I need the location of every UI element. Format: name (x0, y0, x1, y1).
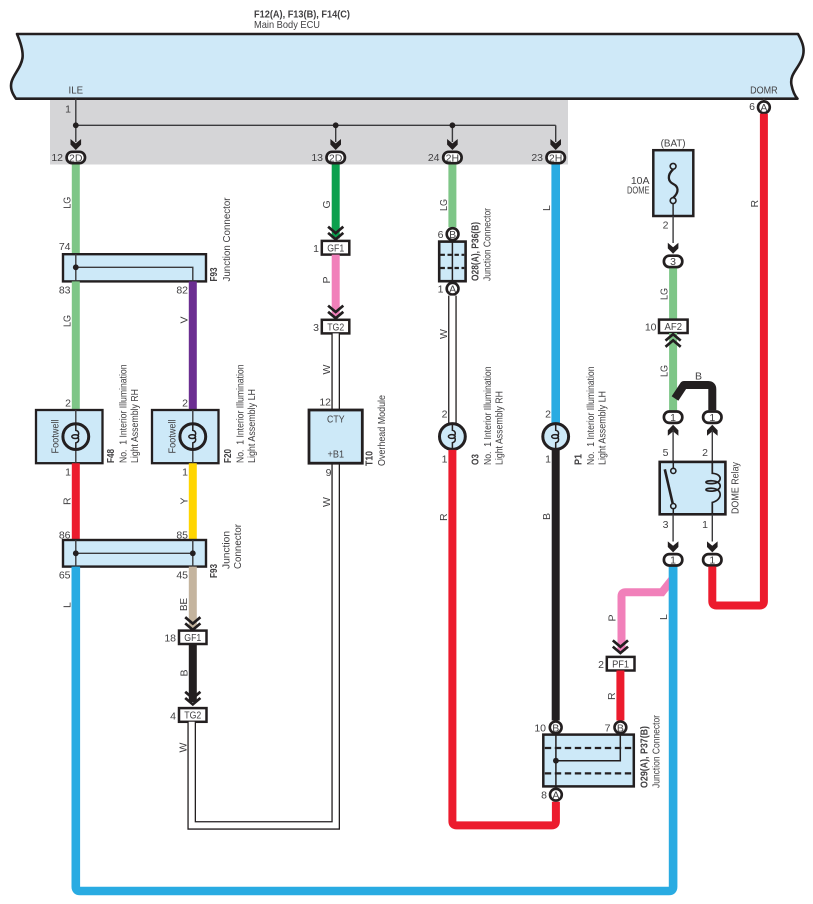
svg-text:2H: 2H (446, 152, 460, 164)
svg-text:65: 65 (59, 570, 71, 582)
svg-text:18: 18 (164, 633, 176, 645)
harness arrow into lower connector 1 (contact) (668, 541, 679, 552)
svg-text:No. 1 Interior Illumination: No. 1 Interior Illumination (118, 364, 130, 463)
svg-text:B: B (178, 669, 190, 676)
svg-text:2: 2 (65, 398, 71, 410)
svg-text:L: L (61, 602, 73, 608)
fuse pin 2 lead (663, 216, 673, 243)
svg-text:R: R (606, 692, 618, 700)
svg-text:W: W (321, 365, 333, 375)
svg-text:Light Assembly LH: Light Assembly LH (246, 389, 258, 463)
relay connector 1 (coil side, lower) (703, 554, 721, 567)
connector 12 2D (51, 152, 85, 165)
connector TG2 pin 4 (170, 708, 206, 722)
splice arrow up into AF2 (666, 334, 681, 347)
wire R F48 pin 1 to F93 pin 86 (59, 463, 76, 541)
svg-text:2H: 2H (549, 152, 563, 164)
svg-text:Junction Connector: Junction Connector (221, 197, 233, 281)
svg-text:Junction Connector: Junction Connector (482, 208, 494, 281)
wire W O28 pin 1 to O3 pin 2 (438, 296, 453, 424)
svg-text:2: 2 (598, 659, 604, 671)
wire G 13-2D to GF1 1 (321, 165, 336, 239)
svg-text:Y: Y (178, 497, 190, 504)
svg-text:B: B (552, 722, 559, 734)
svg-text:W: W (321, 497, 333, 507)
bus drop to 13-2D (335, 125, 337, 142)
svg-text:3: 3 (663, 519, 669, 531)
svg-text:Overhead Module: Overhead Module (376, 395, 388, 466)
svg-text:1: 1 (313, 243, 319, 255)
bus drop to 24-2H (451, 125, 453, 142)
connector GF1 pin 18 (164, 631, 206, 645)
svg-text:Junction: Junction (221, 531, 233, 569)
svg-text:P: P (607, 614, 619, 621)
svg-text:74: 74 (59, 241, 71, 253)
harness arrow into 13-2D (330, 139, 341, 150)
svg-text:L: L (541, 205, 553, 211)
svg-text:Footwell: Footwell (167, 420, 179, 454)
wire LG F93 pin 83 to F48 pin 2 (61, 281, 76, 410)
svg-text:2: 2 (442, 409, 448, 421)
svg-text:2D: 2D (329, 152, 343, 164)
svg-text:9: 9 (326, 467, 332, 479)
junction connector F93 (upper) (59, 197, 233, 296)
svg-text:24: 24 (428, 152, 440, 164)
svg-text:1: 1 (65, 467, 71, 479)
svg-text:2: 2 (663, 220, 669, 232)
svg-text:No. 1 Interior Illumination: No. 1 Interior Illumination (235, 364, 247, 463)
svg-text:1: 1 (709, 555, 715, 567)
svg-text:2: 2 (702, 447, 708, 459)
wire BE F93 pin 45 to GF1 18 (178, 567, 193, 628)
wire W TG2 4 down and right joining CTY pin 9 wire (177, 463, 335, 825)
svg-text:Light Assembly RH: Light Assembly RH (494, 391, 506, 465)
svg-text:12: 12 (319, 397, 331, 409)
svg-text:LG: LG (659, 365, 671, 377)
wire W TG2 3 to T10 pin 12 (319, 333, 335, 410)
svg-text:(BAT): (BAT) (661, 137, 686, 149)
wire P relay junction to PF1 2 (607, 578, 674, 651)
wire L overlay at relay junction (669, 567, 678, 640)
svg-text:A: A (760, 102, 767, 114)
ILE pin 1 stub (65, 99, 76, 126)
svg-text:A: A (552, 790, 559, 802)
bus drop to 12-2D (75, 125, 77, 142)
svg-text:TG2: TG2 (327, 321, 344, 333)
DOME Relay (660, 461, 742, 514)
junction connector O28(A), P36(B) (438, 208, 494, 296)
wire V F93 pin 82 to F20 pin 2 (178, 281, 193, 410)
grey harness shade band (50, 99, 568, 165)
harness distribution bus (76, 124, 556, 126)
footwell lamp F20 No. 1 Interior Illumination Light Assembly LH (152, 364, 258, 478)
svg-text:2: 2 (545, 409, 551, 421)
svg-text:No. 1 Interior Illumination: No. 1 Interior Illumination (482, 366, 494, 465)
svg-text:ILE: ILE (69, 85, 84, 97)
svg-text:23: 23 (531, 152, 543, 164)
svg-text:L: L (658, 614, 670, 620)
wire B P1 pin 1 to O29 pin 10 (541, 449, 556, 720)
svg-text:F48: F48 (105, 449, 117, 463)
svg-text:DOMR: DOMR (750, 85, 778, 97)
fuse 10A DOME (BAT) (627, 137, 693, 216)
svg-text:6: 6 (749, 101, 755, 113)
svg-text:G: G (321, 200, 333, 208)
svg-text:2D: 2D (69, 152, 83, 164)
svg-text:7: 7 (605, 722, 611, 734)
wire B branch to relay connector 1 (coil) (675, 371, 712, 411)
svg-text:1: 1 (65, 104, 71, 116)
wire R O3 pin 1 down, right, up to O29 pin 8 (438, 450, 556, 826)
svg-text:8: 8 (541, 790, 547, 802)
overhead module T10 CTY/+B1 (309, 395, 388, 479)
svg-text:AF2: AF2 (665, 321, 683, 333)
svg-text:1: 1 (670, 412, 676, 424)
connector 23 2H (531, 152, 565, 165)
relay connector 1 (coil side, upper) (703, 412, 721, 425)
splice arrow into GF1 18 (185, 617, 200, 630)
splice arrow into TG2 3 (328, 306, 343, 319)
svg-text:1: 1 (545, 454, 551, 466)
harness arrow up into connector 1 (contact) (668, 425, 679, 436)
svg-text:1: 1 (442, 454, 448, 466)
svg-text:DOME Relay: DOME Relay (730, 461, 742, 514)
svg-text:R: R (438, 513, 450, 521)
wire R DOMR to relay coil connector 1 (712, 114, 764, 606)
wire LG 24-2H to O28 pin 6 (438, 165, 453, 228)
svg-text:Light Assembly LH: Light Assembly LH (597, 391, 609, 465)
wire LG AF2 to relay connector 1 (659, 333, 674, 410)
svg-text:Footwell: Footwell (50, 420, 62, 454)
svg-text:4: 4 (170, 711, 176, 723)
svg-text:GF1: GF1 (327, 243, 344, 255)
svg-text:A: A (449, 284, 456, 296)
wire P GF1 1 to TG2 3 (321, 255, 336, 317)
svg-text:1: 1 (438, 284, 444, 296)
svg-text:5: 5 (663, 447, 669, 459)
svg-text:B: B (541, 513, 553, 520)
svg-text:W: W (177, 743, 189, 753)
wire R PF1 2 to O29 pin 7 (606, 671, 621, 721)
svg-text:F93: F93 (208, 564, 220, 578)
connector PF1 pin 2 (598, 657, 634, 671)
svg-text:P1: P1 (573, 454, 585, 465)
svg-text:12: 12 (51, 152, 63, 164)
harness arrow up into connector 1 (coil) (707, 425, 718, 436)
svg-text:O29(A), P37(B): O29(A), P37(B) (639, 726, 651, 788)
svg-text:10: 10 (645, 322, 657, 334)
svg-text:BE: BE (178, 598, 190, 611)
connector GF1 pin 1 (313, 241, 349, 255)
junction dot node ILE (73, 122, 79, 128)
svg-text:O28(A), P36(B): O28(A), P36(B) (470, 222, 482, 281)
svg-text:LG: LG (61, 197, 73, 209)
wire LG connector 3 to AF2 10 (659, 268, 674, 319)
svg-text:Main Body ECU: Main Body ECU (254, 19, 320, 31)
svg-text:LG: LG (61, 315, 73, 327)
relay connector 1 (contact side, lower) (664, 554, 682, 567)
junction connector F93 (lower) (59, 524, 244, 582)
svg-text:W: W (438, 329, 450, 339)
wire L F93 pin 65 down, across bottom, up to relay pin 3 connector (61, 567, 673, 891)
svg-text:LG: LG (438, 199, 450, 211)
svg-text:B: B (449, 229, 456, 241)
svg-text:1: 1 (670, 555, 676, 567)
svg-text:V: V (178, 316, 190, 323)
ECU pin 6 A connector DOMR (749, 99, 770, 115)
svg-text:CTY: CTY (327, 414, 345, 426)
svg-text:+B1: +B1 (328, 449, 345, 461)
lamp O3 No. 1 Interior Illumination Light Assembly RH (440, 366, 506, 465)
svg-text:1: 1 (182, 467, 188, 479)
harness arrow into 23-2H (550, 139, 561, 150)
svg-text:82: 82 (176, 285, 188, 297)
junction connector O29(A), P37(B) (534, 715, 662, 802)
harness arrow into connector 3 (668, 243, 679, 254)
harness arrow into lower connector 1 (coil) (707, 541, 718, 552)
relay connector 1 (contact side, upper) (664, 412, 682, 425)
footwell lamp F48 No. 1 Interior Illumination Light Assembly RH (36, 364, 141, 478)
relay pin 3 lead (663, 514, 673, 541)
svg-text:Light Assembly RH: Light Assembly RH (129, 389, 141, 463)
splice arrow into PF1 2 (613, 640, 628, 653)
svg-text:3: 3 (670, 256, 676, 268)
wire LG 12-2D to F93 pin 74 (59, 165, 76, 255)
svg-text:F20: F20 (222, 449, 234, 463)
svg-text:45: 45 (176, 570, 188, 582)
relay pin 1 lead (702, 514, 712, 541)
junction dot node 24 (450, 122, 456, 128)
wire B GF1 to TG2 (178, 644, 193, 702)
svg-text:R: R (749, 200, 761, 208)
svg-text:B: B (617, 722, 624, 734)
svg-text:13: 13 (311, 152, 323, 164)
svg-text:P: P (321, 276, 333, 283)
relay pin 5 lead (663, 430, 673, 462)
svg-text:1: 1 (702, 519, 708, 531)
svg-text:2: 2 (182, 398, 188, 410)
relay pin 2 lead (702, 430, 712, 462)
junction dot node 13 (333, 122, 339, 128)
wire Y F20 pin 1 to F93 pin 85 (176, 463, 192, 541)
splice arrow into TG2 4 (185, 692, 200, 705)
connector AF2 pin 10 (645, 320, 688, 334)
svg-text:F93: F93 (208, 267, 220, 281)
svg-text:T10: T10 (364, 451, 376, 466)
svg-text:O3: O3 (470, 454, 482, 465)
ECU title F12(A), F13(B), F14(C) / Main Body ECU (254, 9, 350, 32)
lamp P1 No. 1 Interior Illumination Light Assembly LH (543, 366, 609, 465)
svg-text:LG: LG (659, 288, 671, 300)
svg-text:No. 1 Interior Illumination: No. 1 Interior Illumination (585, 366, 597, 465)
Main Body ECU band (11, 34, 804, 99)
connector 3 (664, 256, 682, 269)
splice arrow into GF1 1 (328, 227, 343, 240)
svg-text:3: 3 (313, 322, 319, 334)
svg-text:83: 83 (59, 285, 71, 297)
connector TG2 pin 3 (313, 320, 349, 334)
connector 24 2H (428, 152, 462, 165)
svg-text:B: B (695, 371, 702, 383)
harness arrow into 12-2D (71, 139, 82, 150)
svg-text:DOME: DOME (627, 185, 650, 197)
harness arrow into 24-2H (447, 139, 458, 150)
svg-text:TG2: TG2 (184, 710, 201, 722)
svg-text:GF1: GF1 (184, 632, 201, 644)
bus drop to 23-2H (555, 125, 557, 142)
svg-text:R: R (61, 497, 73, 505)
svg-text:1: 1 (709, 412, 715, 424)
svg-text:10: 10 (534, 722, 546, 734)
svg-text:6: 6 (438, 229, 444, 241)
svg-text:Junction Connector: Junction Connector (651, 715, 663, 788)
connector 13 2D (311, 152, 345, 165)
svg-text:Connector: Connector (232, 524, 244, 569)
svg-text:PF1: PF1 (612, 659, 629, 671)
wire L 23-2H to P1 pin 2 (541, 165, 556, 424)
